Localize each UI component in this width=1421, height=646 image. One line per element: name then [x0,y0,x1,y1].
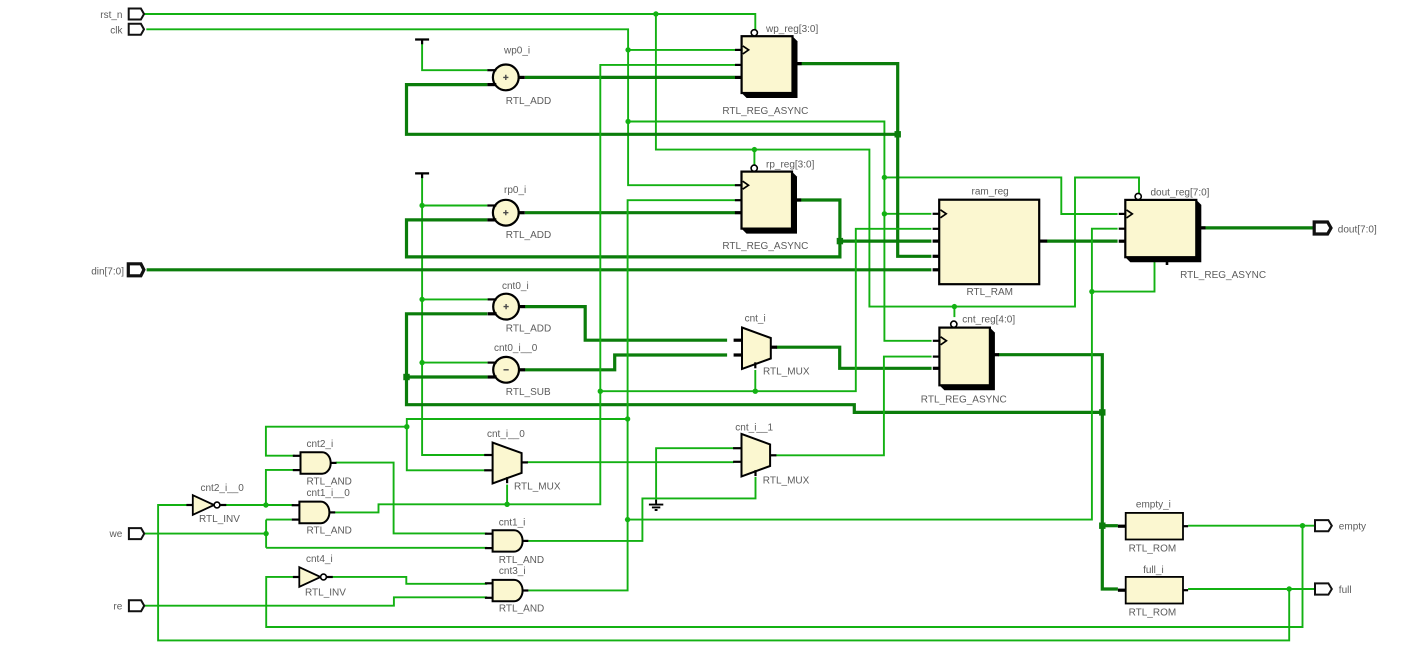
junction ren branch [625,416,630,421]
wire clk trunk to rp_reg C [146,29,735,185]
and-gate cnt1_i RTL_AND [493,530,523,551]
svg-text:RTL_AND: RTL_AND [307,476,352,487]
wire const1 to wp0_i in0 [422,44,487,70]
wire ren cnt3_i out to rp_reg CE [528,200,735,590]
inverter cnt4_i RTL_INV [299,567,320,587]
wire we from port [144,533,266,535]
wire din bus to ram_reg D [147,268,932,271]
svg-text:RTL_INV: RTL_INV [305,587,346,598]
rom full_i RTL_ROM [1126,577,1183,604]
wire clk branch to cnt_reg C [628,122,932,341]
svg-text:RTL_RAM: RTL_RAM [967,287,1014,298]
svg-text:cnt_i__1: cnt_i__1 [735,423,773,434]
junction full [1287,586,1292,591]
svg-text:RTL_AND: RTL_AND [307,526,352,537]
adder rp0_i RTL_ADD [493,200,519,226]
wire rst to cnt_reg CLR [953,307,955,318]
junction cnt feedback [403,374,409,380]
junction ren dout pins [1089,289,1094,294]
junction clk-dout [882,175,887,180]
svg-text:cnt2_i__0: cnt2_i__0 [201,483,245,494]
wire clk to wp_reg C [628,49,735,51]
wire ren to dout_reg CE [628,229,1118,520]
wire gnd to cnt_i__1 in0 [656,448,734,502]
input port re [129,600,144,611]
svg-text:RTL_REG_ASYNC: RTL_REG_ASYNC [722,106,808,117]
svg-text:RTL_MUX: RTL_MUX [514,482,561,493]
ram ram_reg U5 [939,200,1039,285]
svg-text:RTL_ADD: RTL_ADD [506,324,551,335]
svg-text:dout_reg[7:0]: dout_reg[7:0] [1151,187,1210,198]
wire rst to rp_reg CLR [753,150,755,165]
wire re to cnt3_i in1 [144,597,487,605]
svg-text:RTL_REG_ASYNC: RTL_REG_ASYNC [1180,270,1266,281]
input port rst_n [129,9,144,20]
svg-text:RTL_ROM: RTL_ROM [1129,543,1177,554]
wire wp_reg Q to ram_reg addr [797,64,932,257]
wire full feedback to cnt2_i__0 [158,505,1289,640]
junction wp bus [895,131,901,137]
svg-text:RTL_MUX: RTL_MUX [763,476,810,487]
output port full [1315,583,1332,594]
junction ren-cnt2 [404,424,409,429]
svg-text:cnt3_i: cnt3_i [499,566,526,577]
wire full_i out to port [1188,588,1316,590]
svg-text:clk: clk [110,25,123,36]
wire wp0_i out to wp_reg D [525,76,735,79]
junction cnt bus empty [1099,523,1105,529]
adder wp0_i RTL_ADD [493,65,519,91]
wire const1 to cnt0_i__0 in0 [422,362,488,364]
constant tie-high 1 [415,40,429,45]
wire wp feedback to wp0_i in1 [407,85,898,135]
junction clk-ram [882,211,887,216]
constant tie-high 2 [415,173,429,178]
svg-text:cnt_i__0: cnt_i__0 [487,429,525,440]
junction const-cnt0 [419,297,424,302]
svg-text:cnt_reg[4:0]: cnt_reg[4:0] [962,314,1015,325]
wire rst_n to wp_reg CLR [144,14,755,30]
svg-text:RTL_AND: RTL_AND [499,604,544,615]
svg-text:rp0_i: rp0_i [504,185,526,196]
wire ren to dout_reg bottom pin [1092,262,1155,292]
mux cnt_i__1 RTL_MUX [742,434,771,477]
wire cnt2_i__0 out to cnt1_i__0 in0 [222,504,294,506]
wire ram_reg out to dout_reg D [1047,240,1118,243]
junction clk branch [625,119,630,124]
junction inv out [263,502,268,507]
junction rp bus [837,238,843,244]
junction const-sub [419,360,424,365]
svg-text:rp_reg[3:0]: rp_reg[3:0] [766,160,815,171]
svg-text:RTL_ADD: RTL_ADD [506,96,551,107]
svg-text:din[7:0]: din[7:0] [91,266,124,277]
wire wen cnt1_i__0 out to wp_reg CE [335,65,735,513]
wire cnt bus to empty_i [1102,524,1118,527]
svg-text:cnt0_i: cnt0_i [502,281,529,292]
ground [649,500,663,510]
wire we vertical [265,520,267,548]
junction ren-dout [625,517,630,522]
wire clk to dout_reg C [884,177,1117,214]
and-gate cnt1_i__0 RTL_AND [299,502,329,524]
wire ren branch to cnt2_i in0 [266,427,407,456]
output port dout[7:0] [1314,222,1331,234]
svg-text:cnt1_i: cnt1_i [499,518,526,529]
rom empty_i RTL_ROM [1126,513,1183,540]
wire cnt4_i out to cnt3_i in0 [327,577,487,584]
wire rst trunk to dout_reg CLR [656,14,1139,307]
wire rp0_i out to rp_reg D [525,211,735,214]
wire empty feedback to cnt4_i [266,526,1302,627]
svg-text:RTL_REG_ASYNC: RTL_REG_ASYNC [722,241,808,252]
output port empty [1315,520,1332,531]
junction rst-rp [752,147,757,152]
wire const1 to rp0_i in0 [422,205,487,207]
wire cnt_i__1 out to cnt_reg CE [776,357,932,456]
wire ren branch to cnt_i__0 in1 [407,419,628,470]
wire cnt_i__0 out to cnt_i__1 in1 [527,461,734,463]
svg-text:empty: empty [1339,522,1366,533]
svg-text:re: re [113,601,122,612]
wire we to cnt1_i__0 in1 [266,519,292,521]
svg-text:RTL_INV: RTL_INV [199,514,240,525]
and-gate cnt2_i RTL_AND [301,452,331,474]
svg-text:wp_reg[3:0]: wp_reg[3:0] [765,24,818,35]
wire cnt0_i__0 out to cnt_i in1 [525,355,727,370]
wire cnt_i out to cnt_reg D [776,347,931,368]
wire cnt_reg Q to full_i [998,355,1118,589]
input port we [129,528,144,539]
register cnt_reg[4:0] U3 [939,328,995,391]
mux cnt_i RTL_MUX [742,328,771,370]
subtractor cnt0_i__0 RTL_SUB [493,357,519,383]
wire cnt feedback to cnt0_i in1 [407,314,1103,413]
wire rp_reg Q feedback to rp0_i in1 [407,200,840,257]
wire inv out to cnt2_i in1 [266,470,295,505]
svg-text:cnt4_i: cnt4_i [306,554,333,565]
input port clk [129,24,144,35]
mux cnt_i__0 RTL_MUX [493,443,522,484]
svg-text:dout[7:0]: dout[7:0] [1338,225,1377,236]
svg-text:RTL_ADD: RTL_ADD [506,230,551,241]
svg-text:cnt2_i: cnt2_i [307,439,334,450]
and-gate cnt3_i RTL_AND [493,580,523,601]
wire cnt0_i out to cnt_i in0 [525,307,727,341]
svg-text:RTL_SUB: RTL_SUB [506,387,551,398]
junction cnt bus [1099,409,1105,415]
svg-text:cnt1_i__0: cnt1_i__0 [307,488,351,499]
wire cnt1_i out to cnt_i__1 select [528,477,755,541]
junction rst-cnt [952,304,957,309]
input port din[7:0] [128,264,144,276]
svg-text:RTL_AND: RTL_AND [499,555,544,566]
junction clk-wp [625,47,630,52]
wire cnt_i__0 select [506,485,508,505]
svg-text:wp0_i: wp0_i [503,46,530,57]
svg-text:full_i: full_i [1143,565,1164,576]
wire const1 trunk to cnt_i__0 in0 [422,177,485,455]
junction wen sel0 [504,502,509,507]
wire wen to ram_reg WE [600,229,931,391]
junction wen [598,389,603,394]
svg-text:ram_reg: ram_reg [972,186,1009,197]
junction we [263,531,268,536]
register wp_reg[3:0] U1 [742,36,798,98]
wire cnt_i select [754,370,756,391]
junction empty [1300,523,1305,528]
junction wen sel [753,389,758,394]
register dout_reg[7:0] U4 [1125,200,1201,262]
wire dout_reg Q to dout port [1201,226,1314,229]
junction const-rp0 [419,203,424,208]
svg-text:RTL_MUX: RTL_MUX [763,367,810,378]
svg-text:cnt0_i__0: cnt0_i__0 [494,343,538,354]
svg-text:full: full [1339,585,1352,596]
svg-text:RTL_REG_ASYNC: RTL_REG_ASYNC [921,394,1007,405]
svg-text:RTL_ROM: RTL_ROM [1129,607,1177,618]
wire cnt feedback to cnt0_i__0 in1 [407,375,488,378]
svg-text:cnt_i: cnt_i [745,314,766,325]
wire empty_i out to port [1188,525,1316,527]
svg-text:we: we [109,529,123,540]
wire rp bus to ram_reg addr [840,240,932,243]
wire clk to ram_reg C [884,213,931,215]
svg-text:empty_i: empty_i [1136,499,1171,510]
junction rst top [653,11,658,16]
wire const1 to cnt0_i in0 [422,298,488,300]
wire we to cnt1_i in1 [266,547,487,549]
adder cnt0_i RTL_ADD [493,294,519,320]
inverter cnt2_i__0 RTL_INV [193,495,214,515]
register rp_reg[3:0] U2 [742,172,798,234]
svg-text:rst_n: rst_n [100,10,122,21]
wire cnt2_i out to cnt1_i in0 [336,463,487,534]
